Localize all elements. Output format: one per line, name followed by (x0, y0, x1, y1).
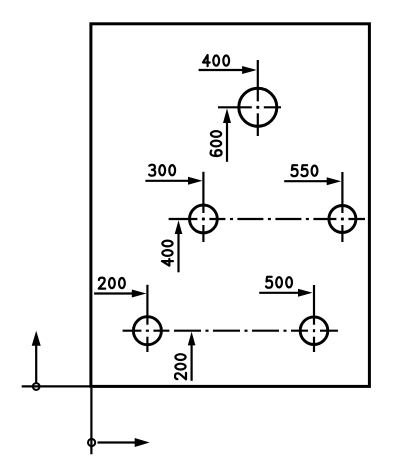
hole circle top (X400 Y600) (239, 88, 277, 126)
centerline vertical of middle-right hole (341, 172, 343, 242)
datum Y axis line (35, 345, 37, 385)
datum X origin circle (88, 439, 95, 446)
label 200 vertical (175, 354, 186, 379)
arrowhead datum X (135, 438, 150, 447)
datum X extension line (left edge extended) (90, 388, 92, 454)
centerline horizontal of top hole (218, 106, 281, 108)
arrowhead 200 horizontal (132, 290, 147, 298)
dimension line 300 (145, 180, 189, 182)
centerline vertical of top hole (257, 60, 259, 136)
dimension line 200 horizontal (94, 292, 133, 294)
label 300 (149, 165, 175, 176)
hole circle middle-right (X550 Y400) (329, 206, 356, 233)
arrowhead 300 (188, 177, 203, 185)
label 400 vertical (162, 241, 173, 266)
hole circle bottom-left (X200 Y200) (133, 317, 161, 345)
arrowhead datum Y (32, 331, 41, 346)
label 550 (291, 165, 317, 176)
datum Y extension line (bottom edge extended) (22, 385, 91, 387)
dimension line 400 vertical (177, 233, 179, 272)
label 400 horizontal (203, 55, 229, 66)
dimension line 600 vertical (226, 122, 228, 162)
dimension line 400 horizontal (199, 69, 244, 71)
centerline vertical of bottom-left hole (146, 285, 149, 352)
arrowhead 600 vertical (223, 108, 231, 123)
dimension line 500 (259, 292, 299, 294)
arrowhead 400 horizontal (242, 66, 257, 74)
hole circle middle-left (X300 Y400) (190, 205, 218, 233)
plate outline (91, 24, 370, 387)
centerline horizontal middle row (dash-dot) (169, 218, 365, 220)
dimension line 550 (284, 180, 328, 182)
label 500 (266, 277, 292, 288)
centerline vertical of middle-left hole (202, 172, 204, 242)
centerline vertical of bottom-right hole (313, 285, 315, 352)
arrowhead 500 (298, 289, 313, 297)
datum X axis line (98, 441, 137, 443)
label 600 vertical (211, 131, 222, 156)
hole circle bottom-right (X500 Y200) (300, 317, 328, 345)
dimension line 200 vertical (191, 345, 193, 381)
datum Y origin circle (33, 383, 40, 390)
arrowhead 200 vertical (188, 332, 196, 346)
arrowhead 400 vertical (175, 220, 183, 234)
centerline horizontal bottom row (dash-dot) (123, 330, 338, 332)
label 200 horizontal (99, 278, 125, 289)
arrowhead 550 (327, 177, 342, 185)
